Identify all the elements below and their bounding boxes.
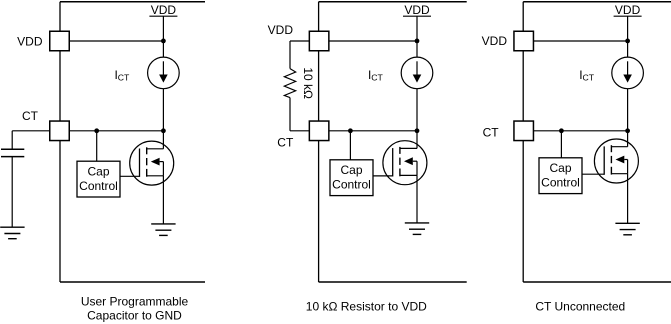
svg-text:VDD: VDD bbox=[17, 35, 43, 49]
svg-text:Cap: Cap bbox=[87, 164, 109, 178]
svg-text:Control: Control bbox=[79, 179, 118, 193]
svg-text:Capacitor to GND: Capacitor to GND bbox=[87, 309, 182, 323]
svg-text:10 kΩ Resistor to VDD: 10 kΩ Resistor to VDD bbox=[306, 299, 427, 313]
svg-text:VDD: VDD bbox=[615, 3, 641, 17]
svg-text:VDD: VDD bbox=[151, 3, 177, 17]
svg-text:CT: CT bbox=[583, 73, 595, 83]
svg-text:Cap: Cap bbox=[549, 161, 571, 175]
svg-text:CT: CT bbox=[118, 73, 130, 83]
svg-text:CT Unconnected: CT Unconnected bbox=[535, 300, 625, 314]
svg-text:User Programmable: User Programmable bbox=[81, 294, 189, 308]
svg-text:VDD: VDD bbox=[268, 23, 294, 37]
svg-text:VDD: VDD bbox=[482, 34, 508, 48]
svg-text:CT: CT bbox=[22, 109, 39, 123]
svg-text:CT: CT bbox=[371, 73, 383, 83]
svg-text:Control: Control bbox=[541, 175, 580, 189]
svg-text:Control: Control bbox=[332, 177, 371, 191]
svg-text:VDD: VDD bbox=[404, 3, 430, 17]
svg-text:CT: CT bbox=[483, 126, 500, 140]
svg-text:Cap: Cap bbox=[340, 163, 362, 177]
svg-text:CT: CT bbox=[277, 136, 294, 150]
svg-text:10 kΩ: 10 kΩ bbox=[301, 67, 315, 99]
